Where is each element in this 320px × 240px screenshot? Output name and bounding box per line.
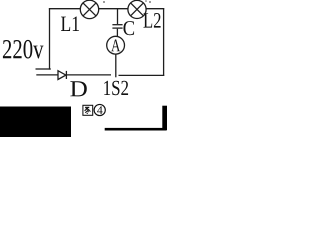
- black redaction bar bottom-left: [0, 107, 71, 138]
- label L2: [143, 13, 160, 28]
- speck dot left of L2: [145, 0, 147, 2]
- caption glyph circled 4: [94, 104, 105, 115]
- wire: 220v lower lead to diode: [36, 74, 58, 76]
- label L1: [61, 16, 79, 31]
- wire: L1 to L2 (through capacitor junction): [99, 8, 129, 10]
- wire: bottom wire from junction gap to diode: [66, 74, 111, 76]
- label D: [70, 81, 86, 96]
- wire: ammeter lead down to bottom wire: [115, 54, 117, 77]
- lamp L1: [80, 0, 98, 18]
- wire: 220v upper lead: [36, 68, 51, 70]
- ammeter A: [107, 36, 125, 54]
- wire: L2 to top-right corner: [146, 8, 164, 10]
- bottom rule line: [105, 128, 167, 131]
- speck dot near L2: [149, 1, 151, 3]
- right black bar: [162, 106, 167, 131]
- lamp L2: [128, 0, 146, 18]
- ammeter A letter: [111, 40, 120, 52]
- diode D: [58, 71, 66, 80]
- caption glyph 图: [83, 105, 93, 115]
- wire: left vertical: [49, 8, 51, 70]
- speck dot near L1: [103, 1, 105, 3]
- wire: top from source corner to L1: [49, 8, 81, 10]
- label C: [123, 21, 134, 35]
- label 220v: [3, 40, 44, 59]
- wire: right vertical: [163, 8, 165, 76]
- wire: bottom right segment: [119, 74, 165, 76]
- label 1S2: [104, 81, 128, 95]
- capacitor C: [112, 9, 122, 37]
